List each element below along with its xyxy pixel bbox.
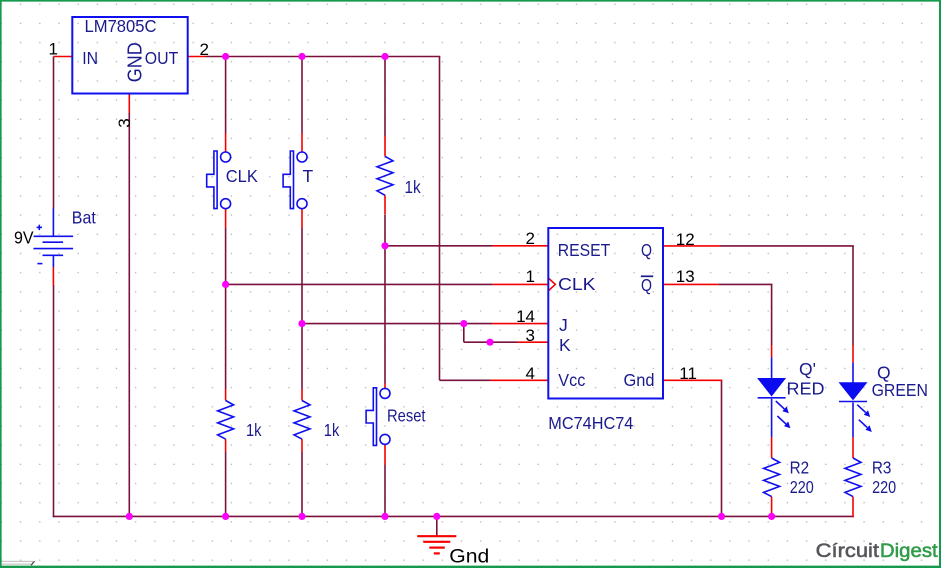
wire: IC Gnd pin11 down to rail [721, 380, 723, 516]
svg-text:LM7805C: LM7805C [85, 16, 157, 36]
svg-text:Gnd: Gnd [624, 370, 655, 390]
svg-text:Q: Q [641, 240, 652, 260]
red LED arrow 1 [776, 401, 785, 409]
window artifact bottom left [1, 561, 33, 564]
wire: Qbar pin13 horizontal run [719, 283, 773, 285]
svg-text:Reset: Reset [387, 406, 426, 426]
svg-text:1: 1 [526, 267, 535, 286]
svg-text:1k: 1k [324, 420, 340, 440]
svg-text:GND: GND [124, 42, 147, 82]
ground bar 1 [417, 535, 456, 537]
svg-text:Bat: Bat [72, 208, 96, 228]
pin stub: regulator pin1 [54, 56, 73, 58]
pin stub: red LED anode [771, 345, 773, 358]
LED1 red [757, 358, 790, 438]
svg-text:Vcc: Vcc [558, 370, 585, 390]
wire: top bus corner down to Vcc row [439, 57, 441, 381]
svg-text:3: 3 [526, 326, 535, 345]
battery minus mark [37, 263, 42, 265]
pin stub: IC pin1 CLK [492, 283, 548, 285]
green page border [0, 0, 941, 2]
push button CLK [207, 151, 231, 209]
junction dot: rail IC gnd [718, 513, 725, 520]
resistor R5 1k (column2) [294, 401, 310, 440]
green LED arrow 2 [859, 420, 868, 428]
pin stub: IC pin13 Qbar [663, 283, 719, 285]
green LED top lead [852, 363, 854, 383]
pin stub: Reset switch bottom [384, 444, 386, 465]
red LED cathode bar [758, 397, 786, 399]
svg-text:IN: IN [82, 48, 98, 68]
pin stub: R3 top [852, 437, 854, 458]
battery plate short [43, 241, 64, 243]
battery V1 symbol [33, 209, 73, 268]
push button Reset [366, 388, 390, 446]
svg-text:T: T [303, 166, 314, 186]
battery top lead [52, 209, 54, 237]
green LED triangle [839, 382, 868, 400]
wire: bottom ground rail [53, 515, 854, 517]
push button T [283, 151, 307, 209]
junction dot: rail col1 [222, 513, 229, 520]
pin stub: IC pin3 K [517, 341, 548, 343]
pin stub: IC pin11 Gnd [663, 379, 722, 381]
ground bar 3 [429, 546, 445, 548]
wire: Q net down to green LED [852, 246, 854, 345]
wire: column2 mid (T switch to node) [301, 228, 303, 389]
red LED top lead [771, 358, 773, 379]
wire: battery bottom to ground rail, vertical [53, 285, 55, 517]
junction dot: top bus col1 [222, 53, 229, 60]
ground bar 2 [423, 541, 450, 543]
resistor R2 220 [764, 458, 780, 497]
junction dot: CLK net branch [222, 281, 229, 288]
junction dot: top bus col2 [298, 53, 305, 60]
junction dot: J net branch [298, 320, 305, 327]
svg-text:MC74HC74: MC74HC74 [548, 413, 633, 433]
pin stub: 1k R4 top [225, 389, 227, 401]
svg-text:RED: RED [787, 379, 825, 399]
red LED triangle [757, 378, 786, 397]
svg-text:CLK: CLK [226, 166, 258, 186]
battery plus mark [37, 226, 42, 228]
wire: Q pin12 horizontal run [720, 245, 854, 247]
Reset button top terminal circle [380, 388, 390, 398]
wire: column2 bottom (R to rail) [301, 452, 303, 516]
svg-text:CLK: CLK [558, 274, 596, 294]
svg-text:12: 12 [676, 230, 695, 249]
pin stub: regulator pin2 [188, 56, 206, 58]
svg-text:4: 4 [526, 364, 535, 383]
Qbar overbar [641, 275, 653, 277]
svg-text:11: 11 [679, 364, 697, 383]
pin stub: CLK switch top [225, 133, 227, 152]
pin stub: 1k R5 bottom [301, 439, 303, 452]
junction dot: J-K jog [460, 320, 467, 327]
junction dot: RESET net branch [381, 242, 388, 249]
red LED arrow 2 [777, 416, 786, 424]
pin stub: R2 top [771, 437, 773, 458]
svg-text:Digest: Digest [880, 540, 938, 562]
junction dot: K pin joint [486, 339, 493, 346]
CLK button top terminal circle [221, 152, 231, 162]
junction dot: rail col3 [381, 513, 388, 520]
svg-text:1: 1 [49, 40, 58, 59]
red LED bottom lead [771, 399, 773, 437]
resistor R1 1k (top, column3) [377, 156, 393, 195]
wire: K net horizontal [464, 341, 517, 343]
CLK button bottom terminal circle [221, 199, 231, 209]
svg-text:Q': Q' [799, 359, 816, 379]
pin stub: Reset switch top [384, 384, 386, 389]
battery bottom lead [52, 255, 54, 267]
pin stub: 1k R1 top [384, 136, 386, 156]
svg-text:K: K [559, 335, 571, 355]
T button bottom terminal circle [297, 199, 307, 209]
pin stub: battery negative [52, 267, 54, 286]
IC U1 MC74HC74 box [548, 228, 663, 399]
svg-text:220: 220 [790, 477, 814, 497]
wire: +5V top bus [206, 56, 440, 58]
svg-text:R3: R3 [872, 457, 892, 477]
wire: CLK net to pin1 [226, 283, 493, 285]
svg-text:Gnd: Gnd [449, 547, 489, 568]
svg-text:1k: 1k [246, 420, 262, 440]
voltage regulator U2 LM7805C box [72, 17, 187, 94]
battery plate long [33, 248, 73, 250]
wire: ground symbol stub [436, 516, 438, 536]
svg-text:RESET: RESET [558, 240, 611, 260]
wire: J-K jog vertical [463, 324, 465, 343]
svg-text:2: 2 [526, 229, 535, 248]
wire: column1 top (bus to CLK switch) [225, 57, 227, 134]
junction dot: rail ground symbol [433, 513, 440, 520]
junction dot: top bus col3 [381, 53, 388, 60]
clock chevron on pin1 [549, 278, 556, 290]
pin stub: IC pin4 Vcc [490, 379, 548, 381]
green LED arrow 1 [857, 405, 866, 413]
Reset button bottom terminal circle [380, 434, 390, 444]
svg-text:1k: 1k [405, 177, 421, 197]
svg-text:14: 14 [516, 307, 535, 326]
wire: column2 top (bus to T switch) [301, 57, 303, 134]
svg-text:J: J [559, 315, 568, 335]
junction dot: rail at regulator gnd [126, 513, 133, 520]
svg-text:3: 3 [115, 118, 134, 127]
junction dot: rail col2 [298, 513, 305, 520]
pin stub: 1k R4 bottom [225, 439, 227, 452]
green LED bottom lead [852, 403, 854, 438]
wire: column1 mid (CLK switch to node) [225, 228, 227, 389]
svg-text:9V: 9V [14, 228, 34, 248]
wire: column3 mid (1k to Reset switch) [384, 215, 386, 384]
CLK button bar and actuator [207, 151, 217, 209]
pin stub: IC pin2 RESET [492, 245, 548, 247]
svg-text:Círcuit: Círcuit [816, 540, 880, 562]
pin stub: IC pin14 J [492, 323, 548, 325]
wire: Vcc feed horizontal [440, 379, 491, 381]
wire: J net horizontal [302, 323, 492, 325]
battery plate long top [34, 235, 74, 237]
svg-text:OUT: OUT [145, 48, 179, 68]
pin stub: CLK switch bottom [225, 209, 227, 228]
pin stub: IC pin12 Q [663, 245, 720, 247]
pin stub: 1k R1 bottom [384, 195, 386, 214]
Reset button bar and actuator [366, 388, 376, 446]
ground bar 4 [434, 552, 440, 554]
svg-text:Q: Q [641, 275, 652, 295]
pin stub: R2 bottom [771, 497, 773, 517]
wire: Qbar net down to red LED [771, 284, 773, 345]
T button bar and actuator [283, 151, 293, 209]
resistor R4 1k (column1) [218, 401, 234, 440]
wire: pin1 regulator to battery top, vertical [53, 57, 55, 209]
pin stub: T switch top [301, 133, 303, 152]
resistor R3 220 [845, 458, 861, 497]
svg-text:GREEN: GREEN [872, 380, 928, 400]
pin stub: 1k R5 top [301, 389, 303, 401]
ground symbol [417, 536, 456, 553]
pin stub: green LED anode [852, 345, 854, 363]
svg-text:2: 2 [200, 40, 209, 59]
wire: column3 top (bus to 1k) [384, 57, 386, 137]
green LED cathode bar [839, 401, 867, 403]
battery plate short bottom [43, 254, 64, 256]
junction dot: rail R2 [768, 513, 775, 520]
pin stub: T switch bottom [301, 209, 303, 228]
svg-text:R2: R2 [790, 457, 810, 477]
pin stub: regulator pin3 [128, 94, 130, 114]
wire: column3 bottom (Reset switch to rail) [384, 465, 386, 516]
svg-text:13: 13 [676, 267, 695, 286]
svg-text:220: 220 [872, 477, 896, 497]
wire: regulator GND pin3 down to rail [128, 113, 130, 516]
wire: RESET net to pin2 [385, 245, 492, 247]
pin stub: R3 bottom [852, 497, 854, 518]
LED2 green [839, 363, 872, 437]
wire: column1 bottom (R to rail) [225, 452, 227, 516]
T button top terminal circle [297, 152, 307, 162]
